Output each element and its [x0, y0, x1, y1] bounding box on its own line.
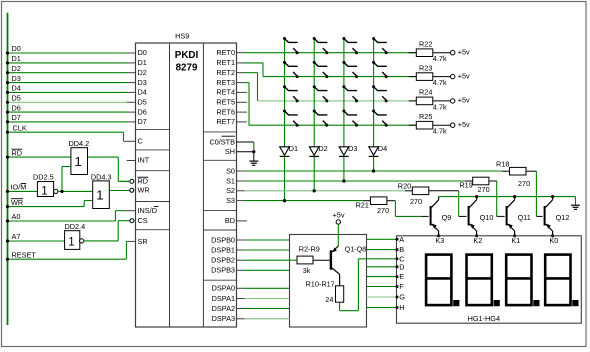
- svg-text:INT: INT: [138, 156, 150, 165]
- svg-text:D4: D4: [12, 84, 21, 93]
- svg-text:270: 270: [377, 206, 389, 215]
- svg-text:S1: S1: [226, 176, 235, 185]
- transistor Q10: [469, 197, 477, 236]
- switch SW1 row1 col1: [283, 37, 299, 54]
- label /RD: [12, 148, 23, 157]
- transistor Q11: [507, 197, 515, 236]
- junction segment E: [396, 275, 399, 278]
- svg-text:A0: A0: [12, 212, 21, 221]
- wire RET6 stub: [237, 111, 247, 113]
- IC right separator 4: [203, 279, 236, 281]
- junction DD2.5/DD4.2: [60, 190, 63, 193]
- svg-text:+5v: +5v: [458, 48, 470, 57]
- wire RET1-row2: [237, 63, 417, 77]
- svg-text:RET6: RET6: [216, 107, 235, 116]
- pin CS (IC): [130, 216, 148, 225]
- svg-text:R21: R21: [356, 201, 369, 210]
- switch SW12 row3 col4: [372, 85, 388, 102]
- wire row1 end: [409, 52, 417, 54]
- svg-text:D1: D1: [289, 144, 298, 153]
- svg-text:CLK: CLK: [13, 123, 27, 132]
- switch SW6 row2 col2: [313, 61, 329, 78]
- svg-text:D4: D4: [138, 88, 147, 97]
- svg-text:D1: D1: [12, 54, 21, 63]
- svg-text:270: 270: [518, 179, 530, 188]
- svg-text:D3: D3: [12, 74, 21, 83]
- junction Q11 emitter / K1: [513, 234, 516, 237]
- svg-text:D: D: [399, 262, 404, 271]
- svg-text:R18: R18: [496, 159, 509, 168]
- wire segment H: [367, 307, 397, 309]
- svg-text:DSPB3: DSPB3: [211, 266, 235, 275]
- svg-text:4.7k: 4.7k: [433, 78, 447, 87]
- wire A7: [6, 239, 65, 242]
- transistor Q9: [431, 197, 439, 236]
- svg-text:A7: A7: [12, 232, 21, 241]
- diode D3: [339, 147, 349, 157]
- wire RET2-row3: [237, 73, 417, 101]
- svg-text:RD: RD: [138, 177, 149, 186]
- junction S0/col4: [372, 169, 375, 172]
- IC right separator 0: [203, 131, 236, 133]
- svg-text:D0: D0: [138, 48, 147, 57]
- svg-text:HS9: HS9: [175, 32, 189, 41]
- svg-text:D1: D1: [138, 58, 147, 67]
- wire RESET: [6, 241, 136, 260]
- display HG1-HG4 box: [397, 236, 582, 323]
- wire DSPB3-driver: [237, 269, 290, 271]
- svg-text:RET0: RET0: [216, 48, 235, 57]
- svg-text:R22: R22: [419, 40, 432, 49]
- svg-text:Q1-Q8: Q1-Q8: [345, 246, 366, 254]
- wire DD4.2 in2: [62, 167, 71, 192]
- switch SW14 row4 col2: [313, 110, 329, 127]
- svg-text:K1: K1: [511, 236, 520, 245]
- wire DD2.4 out: [84, 221, 130, 241]
- resistor R21: [370, 197, 387, 205]
- svg-text:S2: S2: [226, 186, 235, 195]
- resistor R20: [412, 187, 429, 195]
- wire segment G: [367, 296, 397, 298]
- wire D2: [6, 71, 136, 74]
- wire R21-Q9 base: [387, 201, 429, 217]
- transistor Q12: [545, 197, 553, 236]
- svg-text:DSPA2: DSPA2: [212, 304, 235, 313]
- svg-text:DSPA3: DSPA3: [212, 314, 235, 323]
- resistor R10-R17: [336, 286, 344, 302]
- svg-text:B: B: [399, 245, 404, 254]
- junction column 4 / S0: [372, 169, 375, 172]
- svg-text:+5v: +5v: [333, 210, 345, 219]
- svg-text:K0: K0: [549, 236, 558, 245]
- svg-text:DSPA1: DSPA1: [212, 294, 235, 303]
- switch SW4 row1 col4: [372, 37, 388, 54]
- digit HG1: [426, 255, 459, 307]
- wire D5: [6, 101, 136, 104]
- svg-text:RET5: RET5: [216, 98, 235, 107]
- pin C0/STB (IC): [209, 136, 235, 146]
- switch SW5 row2 col1: [283, 61, 299, 78]
- svg-text:RET1: RET1: [216, 58, 235, 67]
- resistor R2-R9: [297, 256, 313, 264]
- wire segment C: [358, 258, 396, 260]
- svg-text:8279: 8279: [176, 63, 198, 74]
- IC left separator 3: [136, 201, 170, 203]
- wire SH: [237, 151, 254, 153]
- svg-text:D7: D7: [12, 113, 21, 122]
- junction SH/C0STB: [252, 150, 255, 153]
- wire R25 to +5v: [433, 124, 451, 126]
- op-amp U1 IC HS9 8279 box: [136, 43, 237, 327]
- +5v terminal 3: [451, 99, 455, 103]
- junction segment G: [396, 296, 399, 299]
- wire S3: [237, 200, 371, 202]
- wire matrix column 4: [373, 38, 375, 171]
- svg-text:DD4.3: DD4.3: [91, 173, 112, 182]
- wire DSPA1-driver: [237, 298, 290, 300]
- pin /RD (IC): [120, 177, 148, 186]
- ground (driver bus): [571, 205, 580, 209]
- wire IO/M: [6, 190, 38, 193]
- wire row4 end: [409, 124, 417, 126]
- svg-text:1: 1: [68, 237, 74, 249]
- svg-text:CS: CS: [138, 216, 148, 225]
- svg-text:D5: D5: [12, 94, 21, 103]
- junction column 1 / S3: [283, 199, 286, 202]
- svg-text:DD4.2: DD4.2: [69, 139, 90, 148]
- junction column 3 / S1: [342, 179, 345, 182]
- wire /WR: [6, 201, 93, 209]
- wire matrix column 1: [284, 38, 286, 201]
- junction segment B: [396, 248, 399, 251]
- wire segment D: [367, 266, 397, 268]
- svg-text:R2-R9: R2-R9: [299, 244, 320, 253]
- wire R20-Q10 base: [429, 191, 467, 217]
- svg-text:SH: SH: [225, 147, 235, 156]
- resistor R18: [510, 167, 527, 175]
- wire driver base in: [290, 259, 298, 261]
- junction segment C: [396, 257, 399, 260]
- +5v terminal 2: [451, 74, 455, 78]
- label /WR: [11, 198, 23, 207]
- wire segment B: [367, 249, 397, 251]
- svg-text:D2: D2: [138, 68, 147, 77]
- svg-text:PKDI: PKDI: [175, 50, 199, 61]
- svg-text:D3: D3: [138, 78, 147, 87]
- switch SW16 row4 col4: [372, 110, 388, 127]
- wire DSPB2-driver: [237, 259, 290, 261]
- pin /WR (IC): [130, 185, 150, 194]
- svg-text:D7: D7: [138, 117, 147, 126]
- junction segment F: [396, 285, 399, 288]
- resistor R22: [416, 49, 433, 57]
- svg-text:D6: D6: [12, 103, 21, 112]
- wire R23 to +5v: [433, 76, 451, 78]
- gate DD2.4: [65, 231, 84, 250]
- wire D1: [6, 61, 136, 64]
- svg-text:D3: D3: [348, 144, 357, 153]
- wire row2 end: [409, 76, 417, 78]
- switch SW15 row4 col3: [342, 110, 358, 127]
- IC left separator 1: [136, 149, 170, 151]
- IC left separator 0: [136, 129, 170, 131]
- IC right separator 2: [203, 209, 236, 211]
- gate DD4.3: [93, 181, 110, 209]
- switch SW2 row1 col2: [313, 37, 329, 54]
- svg-text:R23: R23: [419, 63, 432, 72]
- svg-text:4.7k: 4.7k: [433, 54, 447, 63]
- svg-text:+5v: +5v: [458, 120, 470, 129]
- wire +5v-Q1 emitter: [337, 224, 339, 246]
- svg-text:BD: BD: [225, 216, 235, 225]
- switch SW3 row1 col3: [342, 37, 358, 54]
- wire RET0-row1: [237, 52, 417, 54]
- pin INT (IC): [127, 156, 150, 165]
- svg-text:4.7k: 4.7k: [433, 127, 447, 136]
- wire RET4 stub: [237, 91, 247, 93]
- svg-text:270: 270: [478, 185, 490, 194]
- junction S3/col1: [283, 199, 286, 202]
- wire R24 to +5v: [433, 100, 451, 102]
- svg-text:1: 1: [41, 186, 47, 198]
- junction S2/col2: [313, 189, 316, 192]
- junction bus Q11: [513, 195, 516, 198]
- wire RET3-row4: [237, 83, 417, 126]
- svg-text:D4: D4: [378, 144, 387, 153]
- svg-text:SR: SR: [138, 237, 148, 246]
- svg-text:+5v: +5v: [458, 71, 470, 80]
- wire DSPA3-driver: [237, 318, 290, 320]
- junction S1/col3: [342, 179, 345, 182]
- svg-text:RET3: RET3: [216, 78, 235, 87]
- digit HG3: [506, 255, 539, 307]
- svg-text:IO/M: IO/M: [11, 183, 27, 192]
- svg-text:G: G: [399, 293, 405, 302]
- junction Q10 emitter / K2: [475, 234, 478, 237]
- wire S2: [237, 190, 413, 192]
- switch SW7 row2 col3: [342, 61, 358, 78]
- wire DSPA0-driver: [237, 287, 290, 289]
- svg-text:D6: D6: [138, 107, 147, 116]
- svg-text:WR: WR: [138, 185, 150, 194]
- switch SW8 row2 col4: [372, 61, 388, 78]
- wire DD4.2 out: [88, 157, 130, 181]
- wire R10R17 out: [340, 259, 359, 311]
- svg-text:3k: 3k: [303, 266, 311, 275]
- wire DD4.3 out: [109, 190, 130, 192]
- switch SW9 row3 col1: [283, 85, 299, 102]
- wire R22 to +5v: [433, 52, 451, 54]
- resistor R24: [416, 97, 433, 105]
- wire DD2.5 out: [58, 190, 93, 192]
- svg-text:WR: WR: [11, 198, 23, 207]
- svg-text:DD2.4: DD2.4: [65, 222, 86, 231]
- gate DD4.2: [71, 148, 88, 175]
- wire R2R9-base: [313, 259, 330, 261]
- wire segment A: [367, 238, 397, 240]
- svg-text:S0: S0: [226, 166, 235, 175]
- junction column 2 / S2: [313, 189, 316, 192]
- svg-text:RESET: RESET: [12, 250, 37, 259]
- IC left separator 2: [136, 170, 170, 172]
- svg-text:RET7: RET7: [216, 117, 235, 126]
- svg-text:Q10: Q10: [480, 213, 494, 222]
- svg-text:HG1-HG4: HG1-HG4: [468, 314, 500, 323]
- svg-text:R10-R17: R10-R17: [306, 280, 335, 289]
- svg-text:D2: D2: [12, 64, 21, 73]
- IC right separator 1: [203, 159, 236, 161]
- IC right separator 3: [203, 229, 236, 231]
- svg-text:DSPB0: DSPB0: [211, 235, 235, 244]
- svg-text:DSPB1: DSPB1: [211, 245, 235, 254]
- wire D3: [6, 81, 136, 84]
- switch SW11 row3 col3: [342, 85, 358, 102]
- IC left separator 4: [136, 229, 170, 231]
- junction bus Q12: [551, 195, 554, 198]
- diode D4: [369, 147, 379, 157]
- ground (SH): [249, 152, 258, 166]
- junction segment D: [396, 265, 399, 268]
- switch SW13 row4 col1: [283, 110, 299, 127]
- wire segment E: [367, 276, 397, 278]
- svg-text:Q12: Q12: [556, 213, 570, 222]
- svg-text:C: C: [138, 137, 143, 146]
- wire row3 end: [409, 100, 417, 102]
- svg-text:Q11: Q11: [518, 213, 531, 222]
- svg-text:R19: R19: [459, 180, 472, 189]
- svg-text:DSPB2: DSPB2: [211, 256, 235, 265]
- driver block Q1-Q8 box: [290, 235, 367, 328]
- wire /RD: [6, 156, 71, 159]
- svg-text:K2: K2: [473, 236, 482, 245]
- bus rail: [7, 13, 9, 325]
- transistor Q1-Q8: [331, 246, 340, 286]
- svg-text:1: 1: [75, 154, 82, 169]
- svg-text:D0: D0: [12, 44, 21, 53]
- svg-text:DD2.5: DD2.5: [33, 173, 54, 182]
- gate DD2.5: [37, 182, 58, 198]
- wire S0: [237, 170, 510, 172]
- wire R18-Q12 base: [526, 171, 543, 216]
- wire collector bus: [439, 197, 576, 205]
- svg-text:+5v: +5v: [458, 96, 470, 105]
- diode D1: [280, 147, 290, 157]
- junction segment A: [396, 238, 399, 241]
- resistor R25: [416, 121, 433, 129]
- wire RET5 stub: [237, 101, 247, 103]
- svg-text:RET4: RET4: [216, 88, 235, 97]
- switch SW10 row3 col2: [313, 85, 329, 102]
- svg-text:F: F: [399, 282, 404, 291]
- svg-text:D5: D5: [138, 98, 147, 107]
- diode D2: [309, 147, 319, 157]
- wire CLK: [6, 131, 136, 142]
- svg-text:K3: K3: [435, 236, 444, 245]
- junction segment H: [396, 306, 399, 309]
- wire D6: [6, 111, 136, 114]
- svg-text:R24: R24: [419, 88, 432, 97]
- svg-text:R25: R25: [419, 112, 432, 121]
- wire DSPA2-driver: [237, 308, 290, 310]
- svg-text:E: E: [399, 272, 404, 281]
- wire matrix column 2: [313, 38, 315, 191]
- svg-text:R20: R20: [398, 182, 411, 191]
- svg-text:270: 270: [410, 197, 422, 206]
- pin BD (IC): [225, 216, 247, 225]
- wire D4: [6, 91, 136, 94]
- +5v terminal 4: [451, 123, 455, 127]
- svg-text:24: 24: [325, 295, 333, 304]
- wire C0/STB: [237, 142, 254, 152]
- digit HG2: [467, 255, 500, 307]
- wire segment F: [367, 286, 397, 288]
- wire D0: [6, 51, 136, 54]
- pin INS/D (IC): [138, 206, 159, 215]
- svg-text:4.7k: 4.7k: [433, 102, 447, 111]
- +5v terminal 1: [451, 51, 455, 55]
- svg-text:H: H: [399, 303, 404, 312]
- svg-text:RD: RD: [12, 148, 23, 157]
- svg-text:C0/STB: C0/STB: [209, 137, 235, 146]
- wire DSPB0-driver: [237, 239, 290, 241]
- junction Q12 emitter / K0: [551, 234, 554, 237]
- wire A0: [6, 211, 136, 223]
- wire D7: [6, 120, 136, 123]
- +5v terminal driver: [336, 220, 340, 224]
- wire RET7 stub: [237, 121, 247, 123]
- svg-text:A: A: [399, 235, 404, 244]
- label IO/M: [11, 183, 27, 192]
- svg-text:Q9: Q9: [442, 213, 452, 222]
- resistor R23: [416, 73, 433, 81]
- svg-text:1: 1: [96, 188, 103, 203]
- svg-text:S3: S3: [226, 196, 235, 205]
- resistor R19: [473, 177, 489, 185]
- wire S1: [237, 180, 473, 182]
- junction Q9 emitter / K3: [437, 234, 440, 237]
- svg-text:RET2: RET2: [216, 68, 235, 77]
- junction bus Q10: [475, 195, 478, 198]
- digit HG4: [545, 255, 578, 307]
- svg-text:D2: D2: [318, 144, 327, 153]
- wire R19-Q11 base: [489, 181, 505, 217]
- wire matrix column 3: [343, 38, 345, 181]
- wire DSPB1-driver: [237, 249, 290, 251]
- svg-text:INS/D: INS/D: [138, 206, 157, 215]
- svg-text:DSPA0: DSPA0: [212, 284, 235, 293]
